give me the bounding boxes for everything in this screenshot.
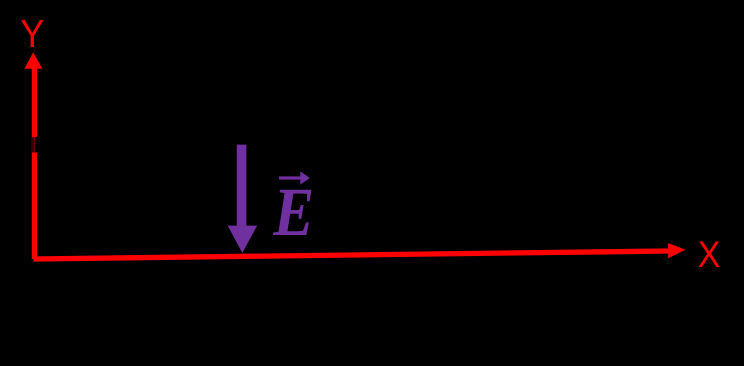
X axis arrowhead — [668, 243, 685, 258]
E field arrow shaft (purple, downward) — [237, 145, 247, 226]
svg-text:Y: Y — [20, 12, 44, 56]
notch (dark break) on Y axis — [34, 137, 37, 153]
E field arrowhead — [228, 226, 258, 253]
Y axis arrowhead — [24, 52, 42, 69]
svg-text:X: X — [698, 234, 721, 276]
vector arrow over E — [279, 176, 304, 179]
X axis line — [34, 251, 670, 259]
svg-text:E: E — [272, 175, 314, 251]
Y axis shaft — [32, 60, 37, 259]
